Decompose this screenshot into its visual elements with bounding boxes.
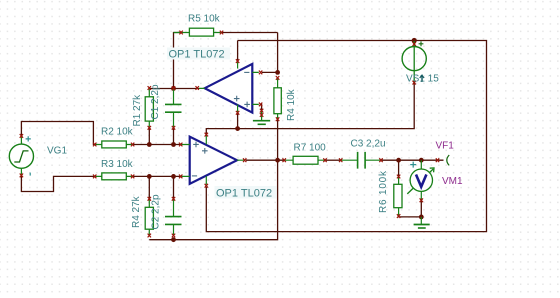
svg-text:R6 100k: R6 100k (378, 170, 389, 213)
junction VM1/R6 ground node (419, 215, 424, 220)
label R7 100 (294, 143, 327, 154)
ground at op-amp1 plus input (253, 111, 270, 124)
resistor R3 (95, 173, 133, 180)
wire op-amp2 output to R7 (246, 159, 284, 161)
pin marks C1 (172, 86, 175, 129)
capacitor C1 (165, 89, 182, 129)
resistor R2 (95, 141, 133, 148)
pin marks C3 (339, 158, 383, 162)
wire op-amp1 minus input to node B (262, 71, 278, 73)
label OP1 TL072 (bottom op-amp) (215, 186, 277, 199)
label VM1 (442, 176, 463, 187)
label R3 10k (101, 159, 134, 170)
capacitor C2 (165, 199, 182, 235)
pin marks op-amp1 (196, 59, 263, 114)
pin marks op-amp2 (179, 133, 246, 188)
wire R3 to op-amp2 minus input (133, 175, 181, 177)
svg-text:R7 100: R7 100 (294, 143, 327, 154)
svg-text:VM1: VM1 (442, 176, 463, 187)
svg-text:R5 10k: R5 10k (188, 14, 221, 25)
wire op-amp1 plus input to ground (260, 104, 261, 111)
junction VM1 top node (419, 158, 424, 163)
junction C2 bottom on feedback net (171, 237, 176, 242)
junction R4 top on R3 net (147, 174, 152, 179)
pin marks R1 (148, 86, 151, 130)
capacitor C3 (342, 152, 381, 169)
pin marks VS1 (413, 42, 416, 84)
junction C1 bottom on R2 net (171, 142, 176, 147)
label OP1 TL072 (top op-amp) (167, 48, 230, 61)
pin marks C2 (172, 197, 175, 238)
junction R1 bottom on R2 net (147, 142, 152, 147)
resistor R1 (145, 89, 153, 129)
svg-text:VF1: VF1 (436, 141, 455, 152)
wire R3 net down to R4 top pin (148, 176, 150, 198)
label C1 2,2p (150, 84, 161, 119)
svg-text:VS1 15: VS1 15 (406, 74, 439, 85)
wire feedback bottom (R4/C2 bottoms to op-amp2 output) (149, 160, 277, 240)
label VS1 15 (406, 74, 439, 85)
svg-text:VG1: VG1 (47, 146, 67, 157)
pin marks R7 (283, 158, 327, 162)
label R4 27k (131, 195, 142, 228)
voltage generator VG1 (9, 136, 33, 175)
voltage source VS1 (402, 41, 426, 83)
junction op-amp1 bottom pin on VS1 minus rail (235, 126, 240, 131)
voltmeter VM1 (407, 160, 434, 200)
wire R2 to op-amp2 plus input (133, 144, 181, 146)
wire VS1 minus rail to op-amp pins (206, 83, 414, 135)
label R2 10k (101, 127, 134, 138)
svg-text:R1 27k: R1 27k (132, 94, 143, 127)
wire op-amp1 top power pin (237, 41, 239, 61)
label VG1 (47, 146, 67, 157)
junction op-amp2 output node (275, 158, 280, 163)
wire C1 bottom lead to R2 net (173, 128, 175, 145)
label C3 2,2u (351, 139, 386, 150)
wire R7 to C3 (326, 159, 340, 161)
junction VS1 plus on supply rail (412, 38, 417, 43)
svg-text:R4 27k: R4 27k (131, 195, 142, 228)
resistor R4 10k (274, 79, 281, 120)
pin marks VG1 (20, 134, 23, 177)
wire R6 bottom to VM1 ground node (399, 215, 422, 218)
wire R6 top lead (398, 160, 400, 175)
pin marks R2 (93, 143, 134, 147)
junction node A (op-amp1 out / R5 / R1 / C1) (171, 86, 176, 91)
wire VG1 plus to R2 (21, 122, 95, 145)
wire R4 10k bottom lead to op-amp2 output node (277, 120, 279, 160)
pin marks R6 (397, 175, 400, 218)
wire R3 net down to C2 top pin (173, 176, 175, 198)
label C2 2,2p (151, 194, 162, 229)
svg-text:OP1 TL072: OP1 TL072 (216, 187, 272, 199)
wire R5 left lead down to node A (174, 33, 182, 89)
label VF1 (436, 141, 455, 152)
resistor R7 (285, 156, 326, 164)
svg-text:OP1 TL072: OP1 TL072 (169, 49, 225, 61)
op-amp U1b OP1 TL072 (output right) (181, 135, 244, 185)
pin marks R4 10k (276, 76, 279, 121)
wire positive supply rail (op-amp1 top pin, VS1 plus, loop to op-amp2 bottom pin) (206, 41, 486, 232)
svg-text:C3 2,2u: C3 2,2u (351, 139, 386, 150)
voltage pin VF1 terminal (447, 155, 449, 165)
wire minus-input column top (R5 to node B) (277, 33, 279, 73)
ground at VM1 (414, 217, 430, 228)
resistor R4 27k (145, 199, 153, 235)
junction C2 top on R3 net (171, 174, 176, 179)
wire C3 to R6/VM1 node and VF1 (382, 159, 444, 161)
label R4 10k (286, 88, 297, 121)
svg-text:R3 10k: R3 10k (101, 159, 134, 170)
junction node B (R5 / op-amp1 minus / R4 10k) (275, 70, 280, 75)
resistor R6 (394, 177, 402, 215)
wire VG1 minus to R3 (21, 175, 95, 191)
svg-text:C2 2,2p: C2 2,2p (151, 194, 162, 229)
label R1 27k (132, 94, 143, 127)
wire R5 right lead to minus-input column (222, 32, 278, 34)
svg-text:R2 10k: R2 10k (101, 127, 134, 138)
pin marks VM1 (420, 158, 440, 202)
label R6 100k (378, 170, 389, 213)
wire VM1 bottom lead to ground node (420, 201, 422, 217)
wire op-amp1 bottom power pin (237, 114, 239, 129)
svg-text:C1 2,2p: C1 2,2p (150, 84, 161, 119)
label R5 10k (188, 14, 221, 25)
op-amp U1a OP1 TL072 (mirrored, output left) (199, 61, 259, 114)
wire node A horizontal (R1 pin to op-amp1 output) (149, 88, 199, 90)
pin marks R4 27k (148, 197, 151, 238)
resistor R5 (174, 28, 223, 36)
pin marks R3 (93, 175, 134, 179)
wire R1 bottom lead to R2 net (148, 128, 150, 145)
pin marks R5 (179, 31, 223, 35)
pin marks ground at op-amp1 (260, 109, 263, 117)
svg-text:R4 10k: R4 10k (286, 88, 297, 121)
junction R6 top node (396, 158, 401, 163)
